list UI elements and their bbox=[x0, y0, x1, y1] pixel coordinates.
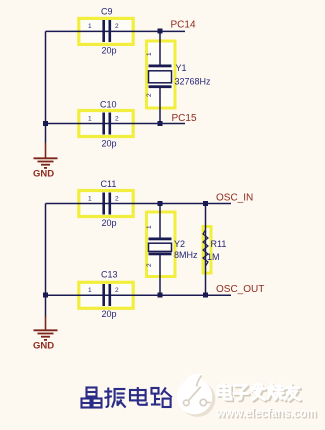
svg-text:GND: GND bbox=[33, 169, 54, 180]
svg-text:1: 1 bbox=[146, 52, 153, 56]
svg-text:20p: 20p bbox=[102, 218, 117, 228]
svg-text:OSC_IN: OSC_IN bbox=[216, 193, 253, 204]
svg-text:20p: 20p bbox=[102, 309, 117, 319]
svg-text:C10: C10 bbox=[100, 100, 117, 110]
svg-text:1: 1 bbox=[88, 116, 92, 123]
svg-text:Y2: Y2 bbox=[174, 239, 185, 249]
svg-text:1: 1 bbox=[88, 287, 92, 294]
svg-text:C11: C11 bbox=[101, 179, 117, 189]
svg-text:1: 1 bbox=[88, 23, 92, 30]
svg-text:2: 2 bbox=[115, 116, 119, 123]
svg-text:www.elecfans.com: www.elecfans.com bbox=[216, 406, 317, 420]
svg-text:OSC_OUT: OSC_OUT bbox=[216, 284, 264, 295]
svg-text:1: 1 bbox=[88, 196, 92, 203]
svg-text:Y1: Y1 bbox=[176, 63, 187, 73]
svg-text:C13: C13 bbox=[101, 270, 118, 280]
svg-text:C9: C9 bbox=[101, 7, 113, 17]
svg-text:PC14: PC14 bbox=[171, 20, 196, 31]
svg-text:2: 2 bbox=[115, 196, 119, 203]
svg-text:2: 2 bbox=[146, 93, 153, 97]
svg-text:2: 2 bbox=[115, 287, 119, 294]
svg-text:2: 2 bbox=[115, 23, 119, 30]
svg-text:R11: R11 bbox=[211, 239, 227, 249]
svg-text:1M: 1M bbox=[207, 252, 220, 262]
svg-text:20p: 20p bbox=[102, 139, 117, 149]
svg-text:32768Hz: 32768Hz bbox=[175, 77, 212, 87]
svg-text:PC15: PC15 bbox=[172, 113, 197, 124]
svg-text:8MHz: 8MHz bbox=[174, 250, 198, 260]
svg-text:1: 1 bbox=[146, 225, 153, 229]
svg-text:GND: GND bbox=[33, 341, 54, 352]
svg-text:2: 2 bbox=[146, 263, 153, 267]
svg-text:20p: 20p bbox=[102, 46, 117, 56]
